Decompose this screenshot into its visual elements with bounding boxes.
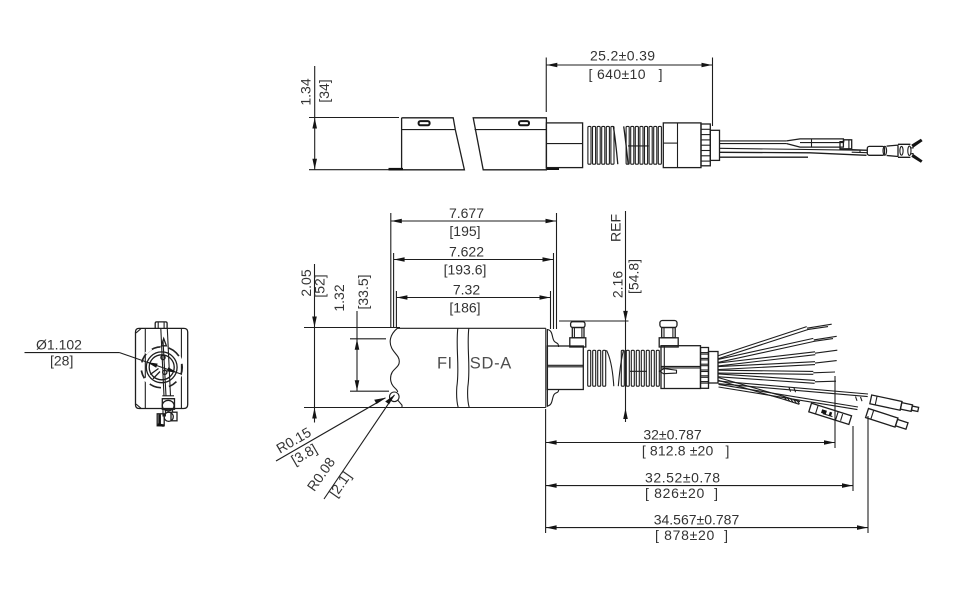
- strap tip: [161, 339, 166, 346]
- svg-text:FI: FI: [437, 355, 452, 373]
- diameter leader line: [120, 353, 182, 375]
- toothed ring outer: [141, 347, 182, 388]
- fitting block B (top view): [663, 123, 701, 168]
- wire middle (top view): [720, 148, 867, 150]
- thick flange line left: [389, 168, 404, 171]
- w8 insulation mark: [789, 388, 862, 402]
- conduit A break arc: [607, 350, 614, 386]
- w9 terminal: [866, 409, 909, 431]
- dim 7.677 ext left: [390, 213, 392, 327]
- wire w8 long: [719, 381, 869, 394]
- wire w5: [719, 370, 814, 371]
- dim 2.05 ext top: [304, 327, 400, 329]
- dimension 25.2 ext line right: [712, 58, 714, 127]
- latch side tab: [171, 412, 177, 421]
- ring middle: [146, 352, 177, 383]
- body half 2 slot: [519, 121, 529, 125]
- conduit B break line: [624, 126, 629, 164]
- dim 7.622 ext right: [553, 253, 555, 329]
- dim 32 line: [546, 442, 835, 444]
- thick flange line right: [547, 167, 559, 170]
- svg-text:SD-A: SD-A: [470, 355, 512, 373]
- bottom dims left ext: [545, 409, 547, 533]
- end step (top view): [710, 130, 719, 160]
- w8 terminal: [870, 395, 919, 414]
- lower latch block: [162, 399, 174, 410]
- diameter arrow right: [167, 367, 178, 373]
- top tab: [155, 322, 167, 329]
- conduit lock cap left: [570, 338, 586, 347]
- barrel second section (top view): [887, 145, 898, 156]
- latch foot: [157, 414, 164, 426]
- svg-text:[ 878±20 ]: [ 878±20 ]: [655, 527, 728, 543]
- fork terminal tips (top view): [911, 148, 913, 154]
- conduit ribs A (middle view): [588, 350, 606, 386]
- thin wire to crimp (top view): [852, 149, 868, 152]
- right connector block (middle view): [661, 346, 701, 389]
- housing left chamfer: [136, 329, 141, 333]
- conduit A break line: [613, 126, 618, 164]
- fitting block A (top view): [546, 123, 582, 168]
- wire w7: [719, 378, 801, 402]
- wire w9 long: [719, 384, 859, 407]
- svg-text:[186]: [186]: [449, 300, 480, 316]
- flat terminal (top view): [787, 139, 844, 147]
- connector body half 1 (top view): [402, 118, 465, 170]
- corrugated conduit B (top view): [626, 126, 661, 164]
- dim 1.32 arrows (inside): [355, 339, 360, 350]
- dim 2.05 line: [314, 264, 316, 423]
- diameter arrow left: [147, 362, 158, 368]
- fitting block A midline: [546, 143, 582, 145]
- body half 1 slot: [419, 121, 430, 125]
- body half 2 strip line: [475, 129, 547, 131]
- fitting block B divider: [677, 123, 679, 168]
- cable midline in conduit B (middle): [630, 370, 647, 372]
- wedge detail: [150, 369, 160, 379]
- svg-text:7.32: 7.32: [453, 282, 480, 298]
- dim 7.32 line: [396, 297, 550, 299]
- svg-text:[33.5]: [33.5]: [355, 274, 371, 309]
- ferrule (top view): [898, 144, 910, 157]
- dim 2.05 ext bottom: [304, 407, 403, 409]
- latch barb: [660, 369, 677, 374]
- body bottom edge: [402, 407, 546, 409]
- dim 7.622 line: [394, 259, 554, 261]
- dim 32.52 line: [546, 485, 853, 487]
- dimension 25.2 ext line left: [545, 58, 547, 113]
- leader R0.08: [324, 395, 395, 499]
- dimension 1.34 arrow down: [312, 159, 317, 170]
- dim 7.622 ext left: [393, 253, 395, 327]
- svg-text:REF: REF: [608, 214, 624, 242]
- body break line 2: [468, 328, 470, 407]
- latch ellipse: [162, 400, 174, 410]
- wire w1: [719, 327, 807, 356]
- wavy break left edge: [390, 328, 399, 392]
- w7 crimp serrations: [784, 396, 800, 404]
- leader R0.15: [276, 398, 386, 461]
- collar end cap: [709, 352, 719, 384]
- dimension 1.34 [34] extension line top: [309, 117, 399, 119]
- strap pivot circles: [161, 355, 165, 359]
- connector body half 2 (top view): [473, 118, 546, 170]
- dimension 1.34 arrow up: [312, 118, 317, 129]
- wire w3: [719, 352, 816, 363]
- svg-text:32.52±0.78: 32.52±0.78: [645, 470, 720, 486]
- wire lower (top view): [720, 152, 867, 155]
- body break line 1: [457, 328, 459, 407]
- svg-text:32±0.787: 32±0.787: [643, 427, 702, 443]
- strain groove top: [547, 330, 558, 348]
- wire pair upper (top view): [720, 140, 787, 142]
- housing outline: [136, 328, 188, 408]
- crimp barrel (top view): [867, 146, 884, 155]
- svg-text:1.32: 1.32: [331, 284, 347, 311]
- svg-text:Ø1.102: Ø1.102: [36, 337, 82, 353]
- dimension 1.34 [34] dimension line: [314, 66, 316, 170]
- wire w4: [719, 362, 816, 367]
- strain groove bottom: [547, 390, 558, 406]
- REF extension line: [559, 320, 629, 322]
- lower latch crossbar: [162, 395, 174, 397]
- dimension 25.2 arrow left: [547, 63, 558, 68]
- wire w2: [719, 338, 814, 359]
- terminal end hook (top view): [840, 140, 852, 149]
- svg-text:[195]: [195]: [449, 223, 480, 239]
- corrugated conduit A (top view): [588, 126, 614, 164]
- R0.08 circle feature: [390, 392, 400, 402]
- dim 2.16 arrows: [623, 311, 628, 322]
- latch lower stem: [162, 409, 164, 417]
- dim 1.32 ext top: [350, 338, 386, 340]
- svg-text:[ 640±10 ]: [ 640±10 ]: [589, 66, 663, 82]
- dimension 25.2 arrow right: [702, 63, 713, 68]
- dimension 25.2 line: [546, 64, 712, 66]
- dim 7.32 ext right: [550, 291, 552, 329]
- dim 32 ext right: [834, 376, 836, 448]
- svg-text:1.34: 1.34: [298, 78, 314, 105]
- body right edge double: [545, 328, 547, 407]
- dimension 1.34 [34] extension line bottom: [309, 169, 389, 171]
- dim 7.32 ext left: [395, 291, 397, 328]
- svg-text:[ 812.8 ±20 ]: [ 812.8 ±20 ]: [642, 443, 730, 459]
- svg-text:34.567±0.787: 34.567±0.787: [654, 512, 740, 528]
- dim 2.16 REF line: [625, 211, 627, 422]
- dim 7.677 ext right: [556, 213, 558, 329]
- cable midline in conduit B: [628, 145, 648, 147]
- svg-text:[34]: [34]: [316, 79, 332, 102]
- dim 1.32 ext bottom: [350, 390, 389, 392]
- body top edge: [397, 327, 546, 329]
- dim 7.677 line: [391, 220, 557, 222]
- svg-text:7.622: 7.622: [449, 244, 484, 260]
- conduit ribs B (middle view): [621, 350, 659, 386]
- svg-text:25.2±0.39: 25.2±0.39: [590, 48, 655, 64]
- svg-text:[28]: [28]: [50, 353, 73, 369]
- latch lower circle: [164, 412, 173, 421]
- dim 34.567 line: [546, 527, 868, 529]
- svg-text:[52]: [52]: [312, 274, 328, 297]
- w7 spade terminal: [809, 403, 852, 424]
- body half 1 strip line: [402, 129, 455, 131]
- svg-text:7.677: 7.677: [449, 205, 484, 221]
- svg-text:[193.6]: [193.6]: [444, 262, 487, 278]
- wire w6: [719, 374, 816, 381]
- dim 2.05 arrows (outside): [312, 317, 317, 328]
- svg-text:[54.8]: [54.8]: [626, 259, 642, 294]
- dim 34.567 ext right: [867, 416, 869, 533]
- housing inner wall left: [144, 328, 146, 408]
- svg-text:[ 826±20 ]: [ 826±20 ]: [645, 485, 718, 501]
- svg-text:2.16: 2.16: [610, 271, 626, 298]
- ribbed collar (middle view): [701, 348, 709, 389]
- dim 32.52 ext right: [852, 426, 854, 491]
- ribbed end cap (top view): [701, 124, 710, 166]
- ring inner: [149, 355, 174, 380]
- diameter leader underline: [25, 352, 120, 354]
- dim 1.32 line: [356, 311, 358, 391]
- strap: [161, 328, 164, 396]
- housing inner wall right: [180, 328, 182, 408]
- fitting block B midline: [663, 142, 677, 144]
- conduit B break arc: [618, 350, 623, 386]
- coupler block left (middle view): [547, 346, 583, 390]
- conduit lock cap right: [659, 338, 678, 347]
